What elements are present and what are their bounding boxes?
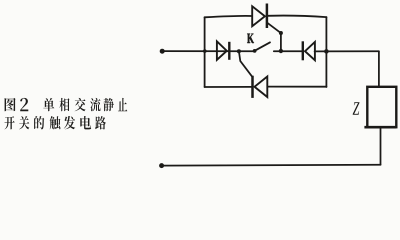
caption line 2: 开关的触发电路 [5,116,106,129]
node: junction T1 gate / middle wire [279,49,283,53]
wire right rail of bridge [325,17,327,87]
wire left rail of bridge [204,17,206,87]
thyristor T1 triangle [252,6,265,26]
diode D2 cathode bar [302,41,304,60]
label K (switch) [247,34,254,43]
load Z box bottom cap [364,126,396,129]
wire vertical down to load Z [378,51,380,87]
thyristor T2 cathode bar [251,76,254,98]
wire gate of thyristor T2 [239,51,252,76]
switch K blade [255,42,270,50]
thyristor T1 cathode bar [266,4,269,29]
wire bottom rail of bridge [205,86,327,88]
node: junction D1 cathode / T2 gate [237,49,241,53]
label Z (load) [353,102,360,115]
diode D1 triangle [217,41,227,60]
wire bottom return [162,164,381,167]
thyristor T2 triangle [255,77,268,98]
wire middle right of switch [274,50,303,52]
node: left input terminal [160,49,165,54]
node: bottom return terminal [159,163,164,168]
wire from diode D2 to right rail and load [315,50,379,52]
node: switch K left contact [253,49,257,53]
wire gate of thyristor T1 [267,23,281,51]
node: junction middle wire / left rail [203,49,207,53]
wire top rail of bridge [205,16,327,18]
node: junction middle wire / right rail [324,49,329,54]
wire from load Z bottom [380,127,382,165]
diode D1 cathode bar [228,42,230,60]
wire middle left segment [162,50,255,52]
load Z box [367,87,396,127]
caption line 1: 图2 单相交流静止 [5,98,128,111]
diode D2 triangle [305,42,315,60]
node: T1 gate bend [279,31,283,35]
